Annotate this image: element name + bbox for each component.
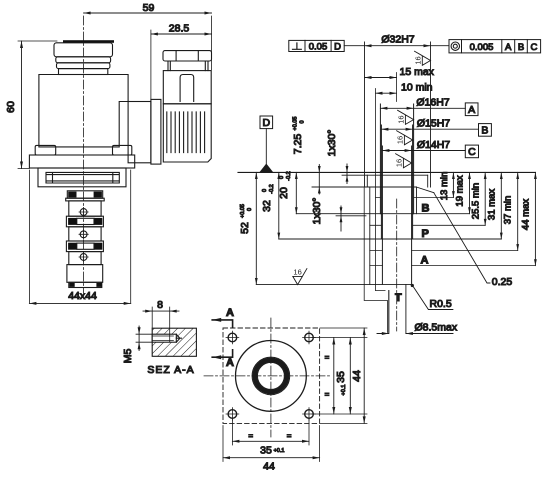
bolt hole top-right — [305, 333, 314, 342]
connector upper body — [163, 71, 211, 104]
svg-text:R0.5: R0.5 — [430, 298, 452, 310]
cartridge lip 1 — [66, 198, 105, 201]
svg-text:37 min: 37 min — [503, 196, 514, 225]
dim 15 max — [365, 77, 397, 79]
Ø14 walls/extensions — [382, 146, 411, 284]
svg-text:44 max: 44 max — [521, 199, 532, 230]
right dim stack: 25.5 min — [484, 172, 486, 225]
svg-text:13 min: 13 min — [439, 172, 450, 201]
shoulder line — [312, 186, 416, 188]
section cut line top — [212, 320, 232, 328]
thread lines — [152, 336, 173, 340]
svg-text:35: 35 — [335, 371, 347, 383]
roughness symbol near Ø15 — [397, 110, 414, 124]
flange dashed square — [223, 328, 320, 423]
tapped hole M5 — [152, 334, 176, 342]
dim 52 — [255, 172, 257, 284]
gland stem — [168, 61, 208, 71]
flange dim 35 right line — [349, 338, 351, 415]
connector ribbed body — [163, 104, 211, 162]
right dim stack: 13 min — [452, 172, 454, 197]
25.5 min bottom line — [370, 224, 485, 226]
10min left extension long — [375, 89, 377, 291]
svg-text:+0.1: +0.1 — [341, 385, 347, 396]
svg-text:10 min: 10 min — [401, 82, 433, 94]
svg-text:M5: M5 — [122, 349, 134, 364]
hatched block — [152, 328, 196, 356]
connector bracket — [151, 99, 161, 164]
svg-text:35: 35 — [260, 445, 272, 457]
roughness symbol lower wall — [395, 154, 412, 168]
svg-text:-0.2: -0.2 — [286, 171, 292, 180]
svg-text:A: A — [226, 307, 234, 319]
lower plate — [38, 168, 126, 187]
svg-text:0: 0 — [247, 208, 253, 211]
roughness symbol left bottom — [293, 268, 307, 285]
dim M5 line — [138, 326, 140, 351]
bolt hole top-left — [228, 333, 237, 342]
svg-text:Ø15H7: Ø15H7 — [417, 118, 450, 130]
shoulder diagonal to 0.25 — [416, 187, 434, 193]
svg-text:=: = — [287, 432, 292, 441]
section cut line bottom — [212, 350, 232, 357]
svg-text:A: A — [505, 42, 512, 53]
dim 8 line — [143, 310, 179, 312]
dim 28.5 left extension — [150, 30, 152, 99]
svg-text:25.5 min: 25.5 min — [471, 183, 482, 219]
A port bottom line (44max ext) — [370, 265, 536, 267]
bore ring edges — [252, 357, 290, 395]
svg-text:Ø16H7: Ø16H7 — [416, 97, 449, 109]
dim 44x44 extensions — [29, 170, 130, 303]
lower 1x30 dim tick — [340, 206, 342, 231]
svg-text:Ø8.5max: Ø8.5max — [415, 322, 458, 334]
cross hole 2 — [80, 231, 87, 238]
chamfer line y175 — [342, 174, 428, 176]
dim Ø8.5max — [377, 333, 414, 335]
coil mounting tab left — [35, 145, 56, 155]
datum box C — [465, 145, 478, 158]
Ø15 walls/extensions — [381, 125, 412, 239]
connector tube — [128, 102, 151, 163]
svg-text:B: B — [481, 124, 488, 136]
svg-text:+0.1: +0.1 — [274, 448, 285, 454]
svg-text:0: 0 — [262, 189, 268, 192]
bolt hole bottom-left — [228, 410, 237, 419]
right frame leader — [431, 45, 450, 47]
left frame (perpendicularity) — [289, 40, 344, 51]
cartridge segment C — [69, 252, 101, 265]
flange dim 44 bottom line — [223, 457, 320, 459]
flange equality dim line right — [333, 338, 335, 415]
right dim stack: 44 max — [534, 172, 536, 265]
15max right extension — [396, 73, 398, 102]
datum box A — [465, 103, 478, 116]
svg-text:D: D — [334, 42, 341, 53]
dim M5 extensions — [136, 334, 152, 342]
svg-text:31 max: 31 max — [487, 189, 498, 220]
right frame (concentricity) — [449, 40, 541, 53]
svg-text:19 max: 19 max — [455, 175, 466, 206]
cavity centerline — [396, 199, 398, 331]
cartridge oring band 1 — [67, 191, 102, 198]
cartridge segment B — [69, 227, 101, 241]
svg-text:+0.05: +0.05 — [240, 204, 246, 218]
dim 44x44 line — [29, 302, 130, 304]
cartridge bottom segment — [67, 265, 103, 283]
knob cap dark slot — [63, 40, 114, 43]
datum D box — [260, 116, 273, 129]
37 min bottom line — [370, 250, 518, 252]
Ø32 bore extension/wall lines — [365, 42, 431, 187]
svg-text:+0.05: +0.05 — [293, 117, 299, 131]
cartridge segment A — [69, 201, 101, 216]
cartridge ring band 3 — [66, 241, 103, 252]
left frame leader — [344, 45, 364, 47]
cartridge ring band 2 — [66, 216, 103, 227]
svg-text:7.25: 7.25 — [292, 134, 304, 155]
connector ribs — [167, 112, 205, 153]
datum box B — [479, 124, 492, 137]
notch — [376, 291, 389, 333]
svg-text:A: A — [226, 357, 234, 369]
dim 10 min — [376, 92, 397, 94]
0.25 leader — [434, 193, 490, 283]
Ø8.5 hole walls — [389, 284, 406, 333]
dim 59 line — [84, 12, 212, 14]
datum D leader and triangle — [265, 129, 267, 164]
upper 1x30 dim tick — [346, 164, 348, 184]
right dim stack: 31 max — [500, 172, 502, 239]
dim 20 — [295, 172, 297, 213]
svg-text:1x30°: 1x30° — [311, 198, 323, 225]
svg-text:59: 59 — [143, 2, 155, 14]
hex nut facets — [176, 51, 198, 61]
flange centerline vertical — [270, 318, 272, 437]
flange bottom dims extensions — [223, 419, 320, 462]
roughness symbol near Ø32 — [414, 51, 431, 65]
dim 8 extensions — [152, 307, 170, 342]
svg-text:8: 8 — [157, 299, 163, 311]
port line P (32 ext) — [279, 238, 502, 240]
concentricity symbol — [451, 42, 459, 50]
T face line (52 ext) — [256, 283, 411, 285]
flange right dims extensions — [312, 328, 367, 423]
svg-text:A: A — [468, 104, 475, 116]
knob base — [59, 69, 108, 75]
svg-text:0.25: 0.25 — [492, 276, 513, 288]
flange plate — [29, 155, 134, 168]
block outline left — [364, 187, 387, 333]
svg-text:T: T — [395, 292, 402, 304]
svg-text:0: 0 — [300, 120, 306, 123]
bore ring thick — [255, 360, 287, 392]
svg-text:SEZ A-A: SEZ A-A — [147, 364, 194, 376]
svg-text:44x44: 44x44 — [68, 290, 97, 302]
flange dim 44 right line — [363, 328, 365, 423]
knob step3 — [57, 63, 110, 69]
connector window — [180, 75, 194, 102]
svg-text:0.05: 0.05 — [309, 42, 328, 53]
cross hole 1 — [80, 209, 87, 216]
coil mounting tab right — [113, 145, 132, 155]
top face line — [238, 171, 535, 173]
bolt hole bottom-right — [305, 410, 314, 419]
13 min bottom line — [376, 197, 454, 199]
flange dim 35 bottom line — [232, 440, 309, 442]
chamfer walls Ø32 — [367, 175, 427, 187]
svg-text:32: 32 — [261, 200, 273, 212]
svg-text:15 max: 15 max — [400, 66, 435, 78]
svg-text:-0.2: -0.2 — [269, 184, 275, 193]
valve centerline — [83, 16, 85, 293]
lower plate slot lines — [46, 172, 119, 183]
svg-text:B: B — [422, 203, 430, 215]
knob cap — [54, 43, 113, 57]
roughness symbol near Ø14 — [396, 131, 413, 145]
svg-text:Ø14H7: Ø14H7 — [417, 139, 450, 151]
R0.5 leader — [414, 287, 453, 310]
svg-text:P: P — [422, 228, 429, 240]
big outer circle — [236, 341, 307, 412]
connector hex nut — [163, 51, 212, 61]
svg-text:60: 60 — [5, 101, 17, 113]
right dim stack: 19 max — [469, 172, 471, 213]
right dim stack: 37 min — [517, 172, 519, 250]
svg-text:=: = — [248, 432, 253, 441]
dim 32 — [278, 172, 280, 239]
svg-text:C: C — [468, 146, 476, 158]
svg-text:=: = — [325, 390, 330, 399]
dim 60 line — [21, 41, 23, 169]
svg-text:44: 44 — [263, 461, 275, 473]
svg-text:B: B — [518, 42, 524, 53]
dim 59 right extension — [211, 16, 213, 70]
svg-text:52: 52 — [239, 222, 251, 234]
svg-text:28.5: 28.5 — [169, 23, 190, 35]
groove outer wall left long — [369, 187, 371, 284]
port line B (20 ext) — [296, 213, 469, 215]
dim 28.5 line — [151, 33, 212, 35]
flange centerline horizontal — [204, 375, 330, 377]
coil body outline — [39, 75, 128, 147]
svg-text:0.005: 0.005 — [470, 42, 494, 53]
cartridge bottom cap — [69, 282, 102, 287]
hole chamfer — [176, 334, 181, 342]
svg-text:=: = — [325, 353, 330, 362]
svg-text:44: 44 — [351, 370, 363, 382]
dim 60 extensions — [18, 41, 57, 169]
svg-text:Ø32H7: Ø32H7 — [381, 34, 414, 46]
perpendicularity symbol — [293, 43, 302, 49]
svg-text:C: C — [530, 42, 537, 53]
svg-text:D: D — [263, 117, 271, 129]
cross hole 3 — [80, 254, 87, 261]
R0.5 corner dot — [411, 284, 414, 287]
knob step2 — [56, 57, 111, 63]
dim 7.25 — [318, 165, 320, 195]
svg-text:20: 20 — [278, 187, 290, 199]
svg-text:A: A — [421, 255, 429, 267]
groove right wall B — [416, 187, 418, 214]
svg-text:1x30°: 1x30° — [326, 130, 338, 157]
Ø16 walls/extensions — [380, 104, 413, 214]
